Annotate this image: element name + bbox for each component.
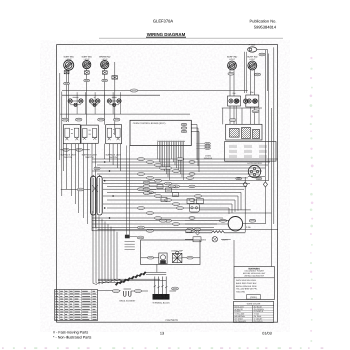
- svg-text:13: 13: [160, 332, 164, 336]
- svg-text:* - Non-Illustrated Parts: * - Non-Illustrated Parts: [53, 336, 91, 340]
- svg-text:5995384814: 5995384814: [254, 25, 277, 30]
- svg-text:Publication No.: Publication No.: [250, 19, 277, 24]
- svg-text:WIRING DIAGRAM: WIRING DIAGRAM: [147, 32, 186, 37]
- svg-text:01/03: 01/03: [262, 332, 272, 336]
- svg-text:GLEF378A: GLEF378A: [153, 19, 174, 24]
